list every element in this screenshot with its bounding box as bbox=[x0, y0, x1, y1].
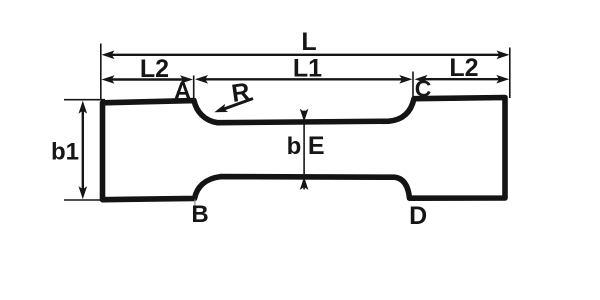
svg-text:E: E bbox=[308, 132, 325, 160]
svg-text:b1: b1 bbox=[51, 139, 79, 166]
dimension L1 bbox=[195, 75, 412, 84]
dimension b1 arrow bbox=[79, 101, 88, 200]
svg-text:L2: L2 bbox=[140, 55, 169, 83]
dimension L2 left bbox=[102, 75, 194, 84]
dimension b/E arrow bbox=[300, 109, 309, 190]
specimen outline bbox=[103, 98, 506, 200]
extension line A bbox=[193, 76, 195, 103]
svg-text:A: A bbox=[174, 78, 191, 105]
svg-text:C: C bbox=[415, 76, 432, 102]
svg-text:D: D bbox=[409, 202, 427, 230]
extension line left bbox=[100, 44, 102, 101]
extension line right bbox=[509, 48, 511, 99]
svg-text:L1: L1 bbox=[293, 55, 322, 83]
leader arrow R bbox=[213, 99, 253, 117]
tick B bbox=[194, 200, 196, 206]
dimension b1 ticks bbox=[64, 99, 105, 101]
dimension L bbox=[102, 51, 510, 60]
extension line C bbox=[412, 72, 414, 99]
dimension L2 right bbox=[415, 75, 510, 84]
svg-text:b: b bbox=[287, 133, 302, 160]
svg-text:L: L bbox=[301, 28, 316, 56]
svg-text:L2: L2 bbox=[449, 54, 478, 82]
svg-text:B: B bbox=[191, 201, 208, 228]
